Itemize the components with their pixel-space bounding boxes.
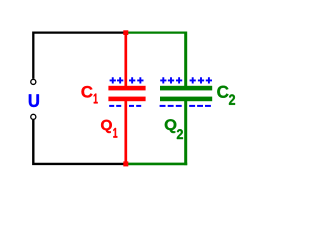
label C1 letter C (red): [82, 86, 93, 98]
capacitor C1 bottom plate: [108, 97, 145, 102]
node: bottom junction dot (red): [123, 161, 128, 166]
label Q1 letter Q (red): [101, 120, 112, 133]
wire: green branch vertical right upper segment: [184, 32, 187, 87]
label C2 letter C (green): [217, 86, 228, 98]
charge symbols: plus row above C1 (blue): [110, 77, 144, 83]
wire: red branch vertical (C1) lower segment: [124, 101, 127, 165]
capacitor C2 top plate: [160, 86, 212, 91]
capacitor C1 top plate: [108, 86, 145, 91]
terminal: bottom circle of source U: [31, 114, 36, 119]
label Q1 subscript 1 (red): [113, 128, 117, 138]
wire: left loop black (source branch) top: [33, 33, 124, 79]
capacitor C2 bottom plate: [160, 97, 212, 102]
wire: red branch vertical (C1) upper segment: [124, 32, 127, 87]
charge symbols: plus row above C2 (blue): [160, 77, 212, 83]
charge symbols: minus row below C2 (blue): [160, 105, 211, 107]
node: top junction dot (red): [123, 30, 128, 35]
terminal: top circle of source U: [31, 79, 36, 84]
charge symbols: minus row below C1 (blue): [109, 105, 141, 107]
label U (blue, voltage source): [29, 94, 39, 107]
label C1 subscript 1 (red): [94, 94, 98, 104]
wire: green branch vertical right lower segment: [184, 101, 187, 165]
label C2 subscript 2 (green): [229, 94, 235, 104]
label Q2 letter Q (green): [165, 119, 177, 133]
wire: green branch top horizontal: [127, 31, 187, 33]
wire: left loop black (source branch) bottom: [33, 120, 123, 164]
label Q2 subscript 2 (green): [177, 129, 183, 139]
wire: green branch bottom horizontal: [128, 163, 187, 166]
